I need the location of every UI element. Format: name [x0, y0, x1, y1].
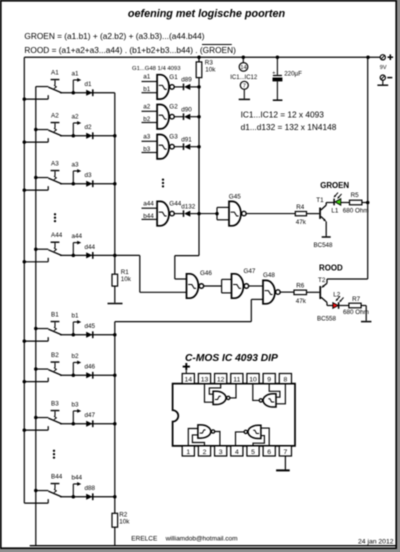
- svg-text:ROOD: ROOD: [319, 263, 343, 272]
- svg-text:A44: A44: [51, 232, 63, 239]
- svg-text:47k: 47k: [296, 219, 307, 226]
- svg-text:14: 14: [185, 377, 193, 384]
- svg-text:A1: A1: [51, 69, 59, 76]
- svg-text:BC558: BC558: [317, 315, 336, 322]
- svg-text:a44: a44: [72, 233, 83, 240]
- svg-text:d2: d2: [85, 124, 93, 131]
- svg-text:williamdob@hotmail.com: williamdob@hotmail.com: [165, 535, 238, 542]
- svg-text:d1: d1: [85, 81, 93, 88]
- svg-text:G1...G48 1/4 4093: G1...G48 1/4 4093: [132, 66, 181, 72]
- svg-text:a44: a44: [143, 200, 154, 207]
- svg-text:680 Ohm: 680 Ohm: [343, 208, 369, 215]
- svg-text:10: 10: [249, 377, 257, 384]
- svg-text:2: 2: [203, 449, 207, 456]
- svg-text:ERELCE: ERELCE: [131, 535, 158, 542]
- svg-text:IC1...IC12: IC1...IC12: [230, 75, 258, 81]
- svg-text:10k: 10k: [119, 518, 130, 525]
- svg-text:b2: b2: [72, 353, 80, 360]
- svg-text:a1: a1: [143, 74, 151, 81]
- svg-text:R1: R1: [121, 269, 130, 276]
- svg-text:IC1...IC12 = 12 x 4093: IC1...IC12 = 12 x 4093: [241, 110, 325, 120]
- svg-text:G48: G48: [263, 272, 275, 279]
- svg-text:b3: b3: [72, 401, 80, 408]
- svg-text:d132: d132: [181, 203, 196, 210]
- svg-text:24 jan 2012: 24 jan 2012: [358, 539, 394, 546]
- svg-text:1: 1: [186, 449, 190, 456]
- svg-text:14: 14: [240, 65, 246, 71]
- svg-text:13: 13: [201, 377, 209, 384]
- svg-text:R4: R4: [296, 204, 305, 211]
- svg-text:B1: B1: [51, 311, 59, 318]
- svg-text:A2: A2: [51, 112, 59, 119]
- svg-text:5: 5: [251, 449, 255, 456]
- svg-text:7: 7: [283, 449, 287, 456]
- svg-text:+: +: [272, 70, 275, 76]
- svg-text:G2: G2: [169, 104, 178, 111]
- svg-text:8: 8: [283, 377, 287, 384]
- svg-text:10k: 10k: [121, 276, 132, 283]
- svg-text:B44: B44: [51, 473, 63, 480]
- svg-text:d91: d91: [181, 136, 192, 143]
- svg-text:b44: b44: [72, 474, 83, 481]
- svg-text:3: 3: [219, 449, 223, 456]
- svg-text:a1: a1: [72, 70, 80, 77]
- svg-text:GROEN: GROEN: [320, 181, 349, 190]
- svg-text:G44: G44: [169, 201, 181, 208]
- svg-text:b1: b1: [72, 312, 80, 319]
- svg-text:12: 12: [217, 377, 225, 384]
- svg-text:R6: R6: [296, 282, 305, 289]
- svg-text:C-MOS IC 4093 DIP: C-MOS IC 4093 DIP: [185, 353, 278, 364]
- svg-text:d45: d45: [85, 323, 96, 330]
- svg-text:a3: a3: [143, 134, 151, 141]
- svg-text:6: 6: [267, 449, 271, 456]
- svg-text:4: 4: [235, 449, 239, 456]
- svg-text:a2: a2: [72, 113, 80, 120]
- svg-text:ROOD = (a1+a2+a3...a44) . (b1+: ROOD = (a1+a2+a3...a44) . (b1+b2+b3...b4…: [24, 45, 236, 55]
- svg-text:R7: R7: [352, 296, 361, 303]
- svg-text:G1: G1: [169, 74, 178, 81]
- svg-text:220µF: 220µF: [284, 70, 302, 77]
- svg-text:GROEN = (a1.b1) + (a2.b2) + (a: GROEN = (a1.b1) + (a2.b2) + (a3.b3)...(a…: [24, 31, 204, 41]
- svg-text:T2: T2: [318, 277, 326, 284]
- svg-text:7: 7: [243, 84, 246, 90]
- svg-text:d1...d132 = 132 x 1N4148: d1...d132 = 132 x 1N4148: [241, 122, 337, 132]
- svg-text:B3: B3: [51, 400, 59, 407]
- svg-text:oefening met logische poorten: oefening met logische poorten: [128, 8, 286, 20]
- svg-text:L1: L1: [331, 208, 339, 215]
- svg-text:G46: G46: [200, 270, 212, 277]
- svg-text:11: 11: [233, 377, 240, 384]
- svg-text:BC548: BC548: [314, 242, 333, 249]
- svg-text:a3: a3: [72, 161, 80, 168]
- svg-text:9V: 9V: [380, 65, 387, 71]
- svg-text:A3: A3: [51, 160, 59, 167]
- svg-text:T1: T1: [316, 197, 324, 204]
- svg-text:d46: d46: [85, 364, 96, 371]
- svg-text:b1: b1: [143, 86, 151, 93]
- svg-text:680 Ohm: 680 Ohm: [343, 309, 369, 316]
- svg-text:d3: d3: [85, 172, 93, 179]
- svg-text:d47: d47: [85, 412, 96, 419]
- svg-text:b44: b44: [143, 213, 154, 220]
- svg-text:R5: R5: [351, 192, 360, 199]
- svg-text:b2: b2: [143, 116, 151, 123]
- svg-text:d44: d44: [85, 244, 96, 251]
- svg-text:9: 9: [267, 377, 271, 384]
- svg-text:G3: G3: [169, 134, 178, 141]
- svg-text:d90: d90: [181, 106, 192, 113]
- svg-text:10k: 10k: [205, 66, 216, 73]
- svg-text:R3: R3: [205, 59, 214, 66]
- svg-text:b3: b3: [143, 146, 151, 153]
- svg-text:47k: 47k: [296, 298, 307, 305]
- svg-text:a2: a2: [143, 104, 151, 111]
- svg-text:G47: G47: [244, 268, 256, 275]
- svg-text:d89: d89: [181, 77, 192, 84]
- svg-text:B2: B2: [51, 352, 59, 359]
- svg-text:G45: G45: [229, 193, 241, 200]
- svg-text:d88: d88: [85, 485, 96, 492]
